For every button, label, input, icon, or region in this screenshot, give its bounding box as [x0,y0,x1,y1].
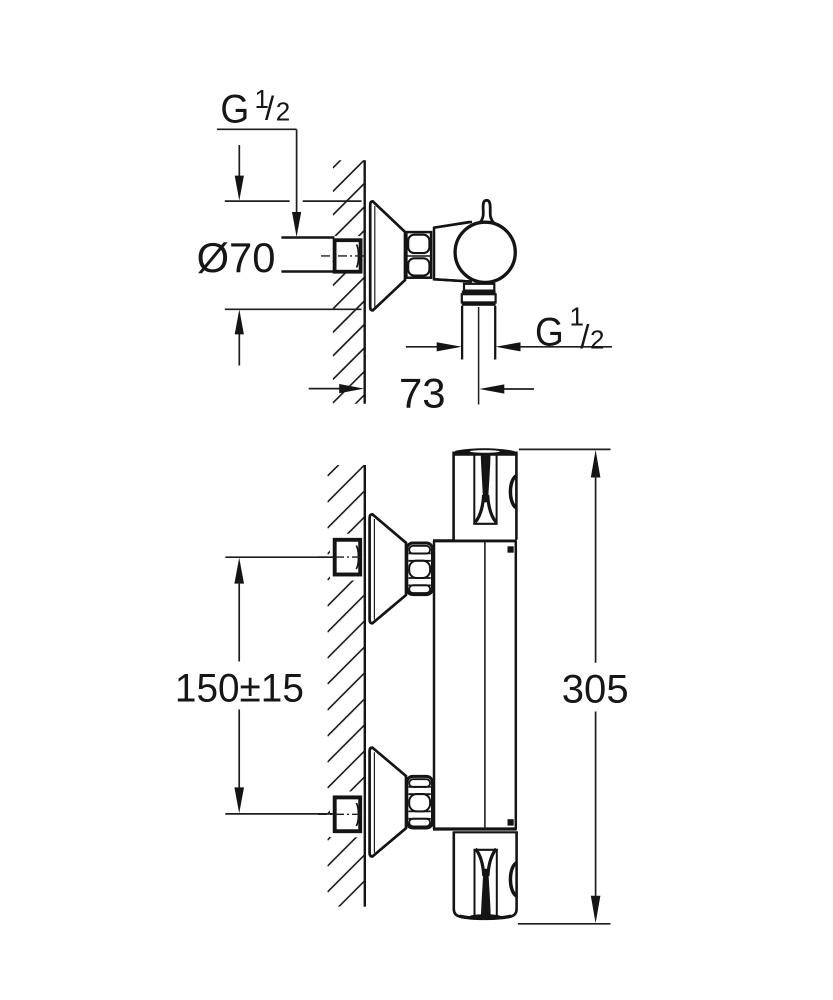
svg-text:Ø70: Ø70 [197,234,276,281]
svg-text:G: G [220,87,249,131]
svg-text:/: / [580,318,590,355]
svg-text:305: 305 [562,667,629,711]
svg-text:2: 2 [276,97,290,127]
svg-text:150±15: 150±15 [175,666,304,710]
svg-text:2: 2 [590,324,604,354]
svg-text:G: G [535,310,564,354]
svg-text:73: 73 [399,369,446,416]
svg-text:/: / [265,90,275,127]
